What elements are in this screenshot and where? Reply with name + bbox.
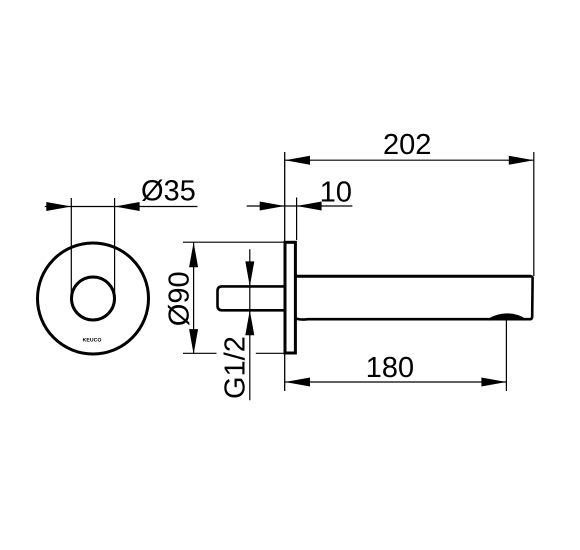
outlet dome arc [489,314,525,319]
arrow 202 right pointing right [509,156,534,165]
arrow 202 left pointing left [285,156,310,165]
outlet extension line [505,320,507,391]
arrow right of D35 pointing left [115,202,140,211]
extension line left of inner circle [70,198,72,299]
extension line right of inner circle [114,198,116,299]
arrow 180 left pointing left [285,378,310,387]
arrow D90 bottom pointing down [189,329,198,354]
inner circle (spout tube front view) [72,277,115,320]
outer circle (wall plate front view) [38,243,149,354]
label 180 [368,357,413,378]
arrow G1/2 lower pointing up [245,310,254,335]
KEUCO logo text [83,338,101,342]
spout tube top line [296,275,531,278]
arrow 10 right pointing left [297,202,322,211]
arrow 180 right pointing right [481,378,506,387]
arrow D90 top pointing up [189,242,198,267]
dimension line 202 [285,159,534,161]
G1/2 dimension vertical line [249,249,251,400]
label 10 [322,181,351,202]
dimension line D90 vertical [193,242,195,354]
label G1/2 rotated [223,338,244,398]
arrow 10 left pointing right [260,202,285,211]
spout tube bottom line [296,317,531,321]
plate front extension line [296,198,298,241]
wall face extension line upper [284,152,286,242]
dimension line D35 [45,206,198,208]
label D35 [142,180,195,202]
wall face extension line lower [284,353,286,391]
dimension line 180 [285,381,506,383]
label 202 [384,134,429,155]
label D90 rotated [168,273,190,326]
spout tip extension line [533,152,535,276]
D90 extension line top [183,241,285,243]
G1/2 connection stub [218,286,286,310]
arrow left of D35 pointing right [46,202,71,211]
wall plate side view [285,242,295,353]
arrow G1/2 upper pointing down [245,261,254,286]
spout tube right end [530,276,533,319]
D90 extension line bottom segment b [256,352,285,354]
D90 extension line bottom segment a [183,352,217,354]
dimension line 10 [247,205,353,207]
